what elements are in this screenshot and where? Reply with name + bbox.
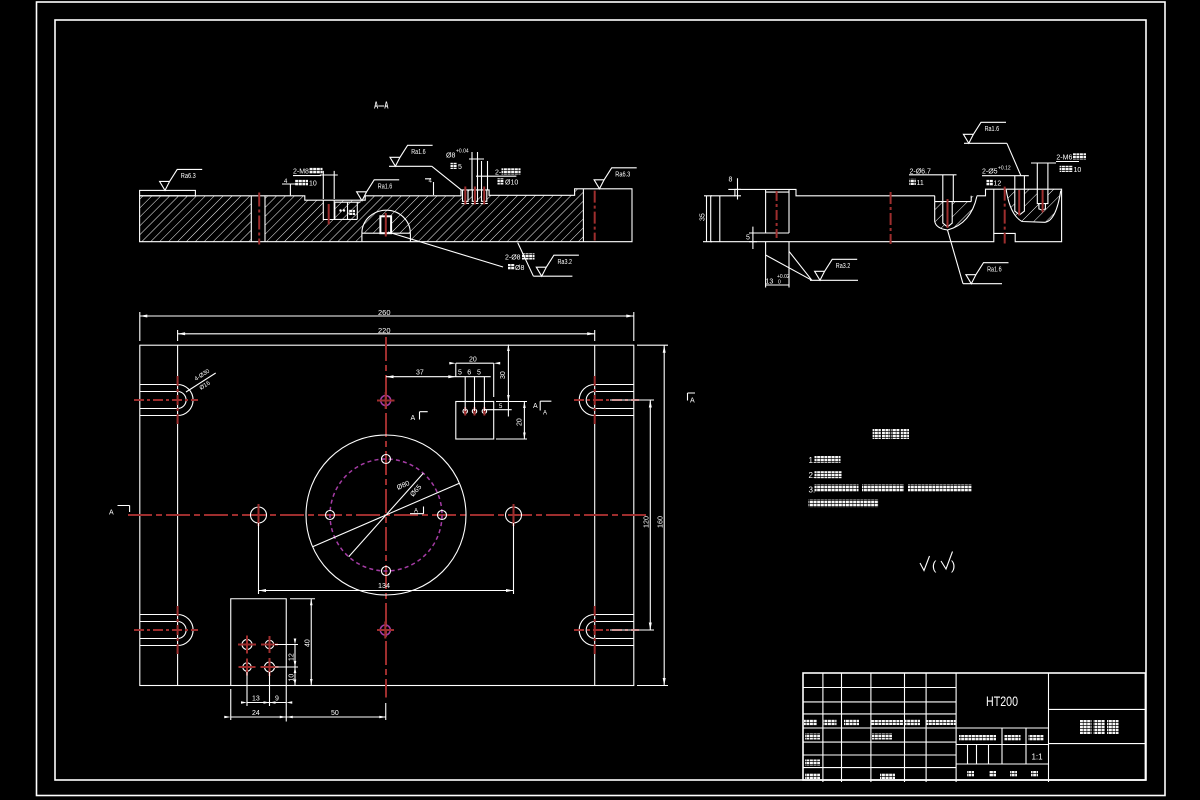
dim 160 right [637,345,668,685]
bottom detail box [231,599,287,722]
dimension arrowheads [140,315,666,719]
svg-text:HT200: HT200 [986,693,1018,709]
drill hole 2 centerline [1018,190,1020,216]
slot bottom-right [579,615,634,646]
section cut boundary line [582,189,584,242]
big hole right centerline [513,504,515,526]
slot bottom-right centerlines [574,629,639,631]
pocket1 counterbore ledge [935,196,972,202]
svg-text:A: A [543,411,547,417]
svg-text:A: A [414,509,418,515]
plan step line left [177,345,179,685]
svg-text:0: 0 [778,280,781,286]
Ra1.6 bent leader symbol [389,145,461,189]
dim 35 left [703,196,712,242]
pin hole 2 centerline [474,187,476,205]
svg-text:6: 6 [467,370,471,377]
dim 260 [140,312,634,341]
pin hole dim lines [469,152,516,190]
title block outer frame [803,673,1145,780]
Ra1.6 top symbol [963,122,1021,175]
dim 37 [386,376,491,378]
svg-text:10: 10 [309,181,317,188]
bottom detail hole 2 [265,640,273,648]
dome center hole [380,216,391,233]
row labels [805,734,820,740]
svg-text:Ra1.6: Ra1.6 [987,266,1002,273]
title block right section rows [1049,709,1146,743]
svg-text:5: 5 [458,164,462,171]
notch centerline [1004,187,1006,244]
svg-text:9: 9 [275,696,279,703]
dim 220 [178,330,595,341]
svg-text:Ra1.6: Ra1.6 [411,149,426,156]
dim 5 small right [484,409,511,411]
svg-text:2-Ø8: 2-Ø8 [505,255,521,262]
chamfer leader lines [766,251,812,280]
dome base line [362,232,411,234]
svg-text:2-M8: 2-M8 [293,169,309,176]
section arrow A left [118,506,130,513]
svg-text:Ø8: Ø8 [515,265,524,272]
title block grid horizontals left section [803,688,956,768]
svg-text:1.: 1. [809,456,816,465]
dome hole centerline [385,213,387,237]
recess depth dim 4 [282,184,296,196]
svg-text:220: 220 [378,328,391,335]
bolt hole N [382,455,391,464]
bolt hole W [326,511,335,520]
thread hole detail lines [334,202,360,219]
svg-text:A: A [109,510,114,517]
slot bottom-left centerlines [134,629,198,631]
svg-text:24: 24 [252,710,260,717]
main vertical centerline [385,337,387,698]
svg-text:Ø10: Ø10 [505,180,518,187]
diameter line dia65 [349,473,424,557]
big hole left centerline [258,504,260,526]
svg-text:160: 160 [658,516,665,528]
pin hole 3 [481,190,488,204]
svg-text:20: 20 [517,418,524,426]
title block grid verticals [823,673,1049,782]
dome pin label leader [388,232,503,267]
svg-text:2-Ø5: 2-Ø5 [982,169,998,176]
dim 20 top [456,363,494,397]
pocket1 drill hole [943,202,952,227]
drill hole 2 [1015,189,1025,215]
title block middle sub verticals [968,728,1027,764]
svg-text:13: 13 [252,696,260,703]
magenta marker top [381,396,391,406]
slot top-right [579,385,634,416]
main horizontal centerline [128,514,648,516]
bolt circle magenta dashed [330,459,442,571]
svg-text:40: 40 [305,639,312,647]
bolt hole S [382,567,391,576]
slot bottom-left [140,615,193,646]
pocket2 hatch [1006,189,1061,222]
bolt hole E [438,511,447,520]
blind hole M8 [323,200,334,219]
pocket1 hatch [935,196,977,230]
svg-text:1:1: 1:1 [1031,753,1043,762]
svg-text:(: ( [932,558,937,573]
left raised strip [140,190,196,195]
pocket1 outline [935,196,977,230]
Ra6.3 left symbol [160,169,203,190]
svg-text:2.: 2. [809,471,816,480]
right block centerline [594,191,596,241]
pocket2 left wall [993,189,995,233]
slot top-left [140,385,193,416]
svg-text:37: 37 [416,370,424,377]
technical requirements title [873,429,881,440]
M8 dim extension lines [320,171,338,199]
outer circle dia160 [306,435,466,595]
dim 120 right [610,400,654,630]
Ra1.6 recess floor symbol [357,180,400,201]
Ra6.3 right symbol [594,168,637,189]
bottom recess [362,233,411,242]
slot top-left centerlines [134,399,198,401]
svg-text:120: 120 [644,516,651,528]
plan step line right [594,345,596,685]
Ra1.6 bottom symbol [948,230,1009,284]
pocket1 centerline [947,199,949,228]
svg-text:12: 12 [994,181,1002,188]
Ra3.2 side symbol [810,259,858,280]
detail holes [463,409,467,413]
detail A marks [420,412,428,420]
svg-text:3.: 3. [809,485,816,494]
roughness checks [920,556,930,571]
svg-text:+0.04: +0.04 [456,149,469,155]
Ra3.2 bottom symbol [518,243,579,277]
big hole left [251,507,267,523]
step dim 4 [425,179,434,195]
svg-text:Ra6.3: Ra6.3 [615,172,630,179]
dim 12 10 vertical [275,645,298,686]
svg-text:2-: 2- [495,170,502,177]
pin hole 1 centerline [464,187,466,205]
svg-text:Ra6.3: Ra6.3 [181,173,196,180]
svg-text:Ra3.2: Ra3.2 [836,263,851,270]
svg-text:+0.12: +0.12 [998,166,1011,172]
bottom detail hole 4 [265,662,275,672]
svg-text:Ra1.6: Ra1.6 [378,184,393,191]
detail rect top [456,402,494,440]
svg-text:Ra3.2: Ra3.2 [558,259,573,266]
diameter line dia80 [313,483,460,547]
section body hatch [140,189,584,242]
bottom detail hole 1 [242,640,252,650]
dim 30 vertical [507,345,509,417]
part name 夹具体 [1080,720,1092,735]
left slot walls [749,189,789,233]
svg-text:5: 5 [458,370,462,377]
mid centerline [890,192,892,244]
bottom detail hole 3 [243,663,251,671]
big hole right [506,507,522,523]
svg-text:5: 5 [477,370,481,377]
slot centerline [258,193,260,245]
svg-text:50: 50 [331,710,339,717]
svg-text:20: 20 [469,357,477,364]
slot label leader [186,373,216,392]
dim 24 50 bottom [231,689,386,720]
svg-text:A: A [533,403,538,410]
detail hole extension lines [465,377,484,411]
dim 134 [259,523,514,594]
svg-text:A—A: A—A [374,101,389,112]
svg-text:A: A [411,415,416,422]
dim 13 9 bottom [247,672,286,706]
middle header labels [959,735,996,741]
magenta marker bottom [380,625,390,635]
dome arch [362,210,410,233]
pocket2 outline [1006,189,1061,222]
svg-text:11: 11 [917,180,924,187]
svg-text:A: A [690,398,695,405]
left slot centerline [776,191,778,238]
svg-text:13: 13 [766,279,774,286]
svg-text:12: 12 [289,653,296,661]
drill hole 3 centerline [1042,190,1044,213]
header row labels [804,719,817,725]
dim 20 right vertical [496,402,527,440]
svg-text:Ra1.6: Ra1.6 [985,126,1000,133]
drill hole 3 [1037,189,1048,210]
svg-text:260: 260 [378,310,391,317]
pin hole 2 [471,190,478,204]
dim 13 slot [766,242,789,288]
dim 40 vertical [290,599,315,686]
section arrow A right [688,393,696,401]
slot walls [251,196,265,242]
left end inner line [719,196,721,242]
tech req line 4 [809,500,879,508]
svg-text:30: 30 [500,371,507,379]
svg-text:5: 5 [746,235,750,242]
svg-text:): ) [951,558,955,573]
svg-text:35: 35 [700,213,707,221]
dim 5 slot [749,227,757,249]
title block middle section rows [956,728,1048,764]
side view body outline [711,189,1062,242]
pin hole 3 centerline [483,187,485,205]
svg-text:2-M6: 2-M6 [1056,155,1072,162]
datum mark near center [410,507,424,514]
svg-text:8: 8 [729,177,733,184]
svg-text:134: 134 [378,583,390,590]
slot top-right centerlines [574,399,639,401]
dim 8 left [704,178,741,199]
svg-text:10: 10 [1074,167,1082,174]
plan outer rect [140,345,634,685]
section body outline [140,189,632,242]
svg-text:Ø8: Ø8 [446,153,455,160]
sheet row [967,771,974,777]
blind hole centerline [328,204,330,225]
pin hole 1 [462,190,470,204]
